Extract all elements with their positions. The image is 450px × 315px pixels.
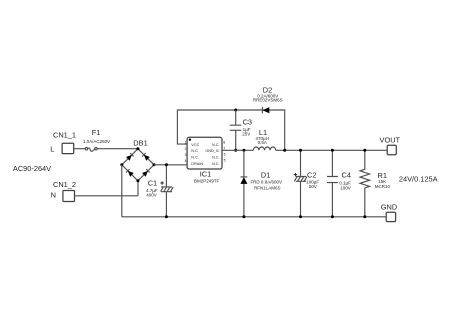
junction R1 bottom [363,215,366,218]
wire IC1 pin7 to output node [222,149,253,151]
svg-text:C2: C2 [307,170,316,179]
svg-text:1.0A/AC250V: 1.0A/AC250V [83,139,110,144]
svg-text:AC90-264V: AC90-264V [13,164,51,173]
junction C2 top [299,149,302,152]
svg-text:50V: 50V [309,184,317,189]
wire bridge left vertex down to ground bus [121,165,123,217]
svg-text:N.C.: N.C. [212,155,220,159]
svg-text:N.C.: N.C. [212,143,220,147]
junction D1 bottom [242,215,245,218]
junction C3 top [234,109,237,112]
capacitor C3 [230,110,252,150]
svg-text:GND_IC: GND_IC [205,149,220,153]
junction C4 bottom [331,215,334,218]
connector CN1_1 [50,130,76,153]
junction bridge right vertex [153,163,156,166]
junction C1 bottom [165,215,168,218]
fuse F1 [83,128,110,151]
svg-text:DRAIN: DRAIN [191,162,203,166]
svg-text:CN1_1: CN1_1 [53,130,76,139]
capacitor C1 [146,165,173,217]
svg-text:GND: GND [381,203,397,212]
svg-text:4: 4 [185,159,187,163]
svg-text:C3: C3 [243,117,252,126]
svg-text:C4: C4 [342,171,351,180]
svg-text:VCC: VCC [191,143,199,147]
svg-text:24V/0.125A: 24V/0.125A [399,175,438,184]
svg-text:25V: 25V [242,131,250,136]
svg-text:2: 2 [185,147,187,151]
wire fuse to bridge top [97,148,138,150]
svg-text:FRD 0.8A/600V: FRD 0.8A/600V [250,180,282,185]
inductor L1 [253,128,275,151]
svg-text:N: N [51,191,56,200]
junction D2 branch [283,149,286,152]
diode D1 [240,150,282,217]
wire CN1_1 to fuse F1 [74,148,86,150]
svg-text:IC1: IC1 [200,169,212,178]
connector CN1_2 [51,180,76,201]
svg-text:RFN1LAM6S: RFN1LAM6S [254,186,281,191]
svg-text:N.C.: N.C. [212,162,220,166]
svg-text:N.C.: N.C. [191,155,199,159]
svg-text:D1: D1 [261,171,270,180]
junction C3 bottom [234,149,237,152]
svg-text:MCR10: MCR10 [375,184,391,189]
svg-text:6: 6 [224,153,226,157]
svg-text:F1: F1 [92,128,101,137]
junction C2 bottom [299,215,302,218]
svg-text:8: 8 [223,140,225,144]
svg-text:DB1: DB1 [133,139,147,148]
wire bridge right vertex to IC1 DRAIN [154,164,187,166]
wire L1 to VOUT [276,149,388,151]
svg-text:C1: C1 [148,178,157,187]
svg-text:BM2P249TF: BM2P249TF [194,179,220,184]
capacitor C4 [327,150,351,217]
capacitor C2 [294,150,320,217]
junction bridge top vertex [136,147,139,150]
wire primary ground bus [122,216,386,218]
svg-text:N.C: N.C [191,149,198,153]
IC U1 BM2P249TF body [187,137,222,183]
svg-text:VOUT: VOUT [380,135,401,144]
bridge rectifier DB1 [122,139,154,181]
wire CN1_2 to bridge bottom [75,181,139,196]
svg-text:3: 3 [185,153,187,157]
junction bridge bottom vertex [136,179,139,182]
junction C1 top [165,163,168,166]
svg-text:L: L [50,144,54,153]
junction bridge left vertex [120,163,123,166]
terminal GND [381,203,397,222]
svg-text:RRE02VSM6S: RRE02VSM6S [253,98,283,103]
svg-text:CN1_2: CN1_2 [53,180,76,189]
wire VCC loop: pin1 left, up, across top, down to output node [177,110,284,150]
junction R1 top [363,149,366,152]
resistor R1 [360,150,391,217]
junction C4 top [331,149,334,152]
svg-text:400V: 400V [146,193,157,198]
junction D1 top [242,149,245,152]
svg-text:100V: 100V [340,186,351,191]
svg-text:5: 5 [224,159,226,163]
svg-text:0.5A: 0.5A [258,140,267,145]
terminal VOUT [380,135,401,154]
diode D2 [253,85,283,113]
